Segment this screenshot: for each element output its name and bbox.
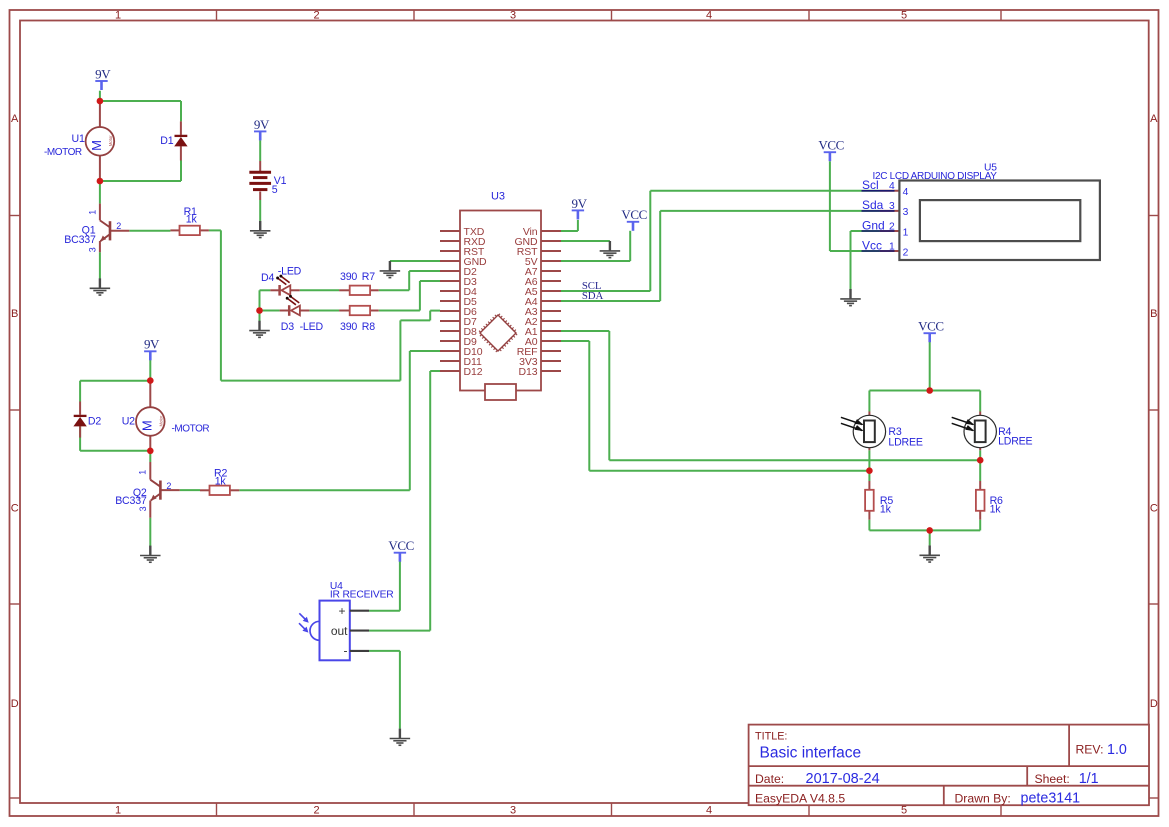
svg-text:BC337: BC337 — [64, 234, 96, 246]
svg-text:pete3141: pete3141 — [1021, 791, 1081, 807]
svg-text:M: M — [140, 420, 155, 431]
svg-text:2017-08-24: 2017-08-24 — [806, 771, 880, 787]
svg-text:B: B — [11, 308, 18, 320]
svg-text:SDA: SDA — [582, 290, 604, 302]
svg-text:2: 2 — [903, 247, 909, 258]
svg-text:3: 3 — [903, 207, 909, 218]
svg-text:9V: 9V — [95, 66, 111, 81]
svg-text:-: - — [344, 643, 348, 657]
svg-text:390: 390 — [340, 321, 357, 333]
svg-text:1k: 1k — [215, 475, 227, 487]
svg-text:9V: 9V — [572, 196, 588, 211]
svg-text:1k: 1k — [186, 213, 198, 225]
svg-text:VCC: VCC — [818, 138, 844, 153]
svg-text:-MOTOR: -MOTOR — [172, 423, 210, 434]
svg-text:VCC: VCC — [621, 207, 647, 222]
svg-text:5: 5 — [901, 805, 907, 817]
svg-text:9V: 9V — [254, 117, 270, 132]
svg-text:2: 2 — [313, 10, 319, 22]
svg-text:Drawn By:: Drawn By: — [955, 791, 1011, 805]
svg-text:LDREE: LDREE — [998, 436, 1032, 448]
svg-text:4: 4 — [706, 10, 712, 22]
svg-text:R8: R8 — [362, 321, 375, 333]
svg-text:U2: U2 — [122, 415, 135, 427]
svg-text:D1: D1 — [160, 135, 173, 147]
svg-text:EasyEDA V4.8.5: EasyEDA V4.8.5 — [755, 791, 845, 805]
svg-text:+: + — [338, 604, 345, 618]
svg-text:BC337: BC337 — [115, 495, 147, 507]
svg-text:1: 1 — [88, 210, 98, 215]
svg-text:D3: D3 — [281, 321, 294, 333]
svg-text:1: 1 — [115, 805, 121, 817]
svg-text:Date:: Date: — [755, 772, 784, 786]
svg-text:Sheet:: Sheet: — [1035, 772, 1070, 786]
svg-text:A: A — [11, 113, 19, 125]
svg-text:4: 4 — [706, 805, 712, 817]
svg-text:D13: D13 — [519, 366, 538, 378]
svg-text:D12: D12 — [464, 366, 483, 378]
svg-text:D: D — [1150, 698, 1158, 710]
svg-text:1.0: 1.0 — [1107, 742, 1127, 758]
svg-text:Motor: Motor — [159, 415, 164, 427]
svg-text:B: B — [1150, 308, 1157, 320]
svg-text:1k: 1k — [990, 504, 1002, 516]
svg-text:1/1: 1/1 — [1079, 771, 1099, 787]
svg-text:D2: D2 — [88, 415, 101, 427]
svg-text:3: 3 — [138, 506, 148, 511]
svg-text:390: 390 — [340, 271, 357, 283]
svg-text:LDREE: LDREE — [888, 436, 922, 448]
svg-text:1k: 1k — [880, 504, 892, 516]
svg-text:REV:: REV: — [1076, 743, 1104, 757]
svg-text:3: 3 — [510, 10, 516, 22]
svg-text:R7: R7 — [362, 271, 375, 283]
svg-text:4: 4 — [903, 187, 909, 198]
svg-text:D: D — [11, 698, 19, 710]
svg-text:1: 1 — [138, 470, 148, 475]
svg-text:C: C — [11, 503, 19, 515]
svg-text:5: 5 — [272, 184, 278, 196]
svg-text:-LED: -LED — [278, 266, 302, 278]
svg-text:1: 1 — [115, 10, 121, 22]
svg-text:VCC: VCC — [918, 319, 944, 334]
svg-text:-LED: -LED — [300, 321, 324, 333]
svg-text:3: 3 — [88, 247, 98, 252]
svg-text:Basic interface: Basic interface — [760, 745, 862, 762]
svg-text:U3: U3 — [491, 191, 505, 203]
svg-text:D4: D4 — [261, 272, 274, 284]
svg-text:M: M — [89, 140, 104, 151]
svg-text:out: out — [331, 624, 348, 638]
svg-text:U1: U1 — [72, 133, 85, 145]
svg-text:2: 2 — [313, 805, 319, 817]
svg-text:1: 1 — [903, 227, 909, 238]
svg-text:-MOTOR: -MOTOR — [44, 147, 82, 158]
svg-text:IR RECEIVER: IR RECEIVER — [330, 589, 394, 600]
svg-text:5: 5 — [901, 10, 907, 22]
svg-text:2: 2 — [116, 221, 121, 231]
svg-text:2: 2 — [166, 481, 171, 491]
svg-text:Motor: Motor — [108, 135, 113, 147]
svg-text:3: 3 — [510, 805, 516, 817]
svg-text:VCC: VCC — [388, 538, 414, 553]
svg-text:C: C — [1150, 503, 1158, 515]
svg-text:9V: 9V — [144, 337, 160, 352]
svg-text:A: A — [1150, 113, 1158, 125]
svg-text:TITLE:: TITLE: — [755, 731, 787, 743]
